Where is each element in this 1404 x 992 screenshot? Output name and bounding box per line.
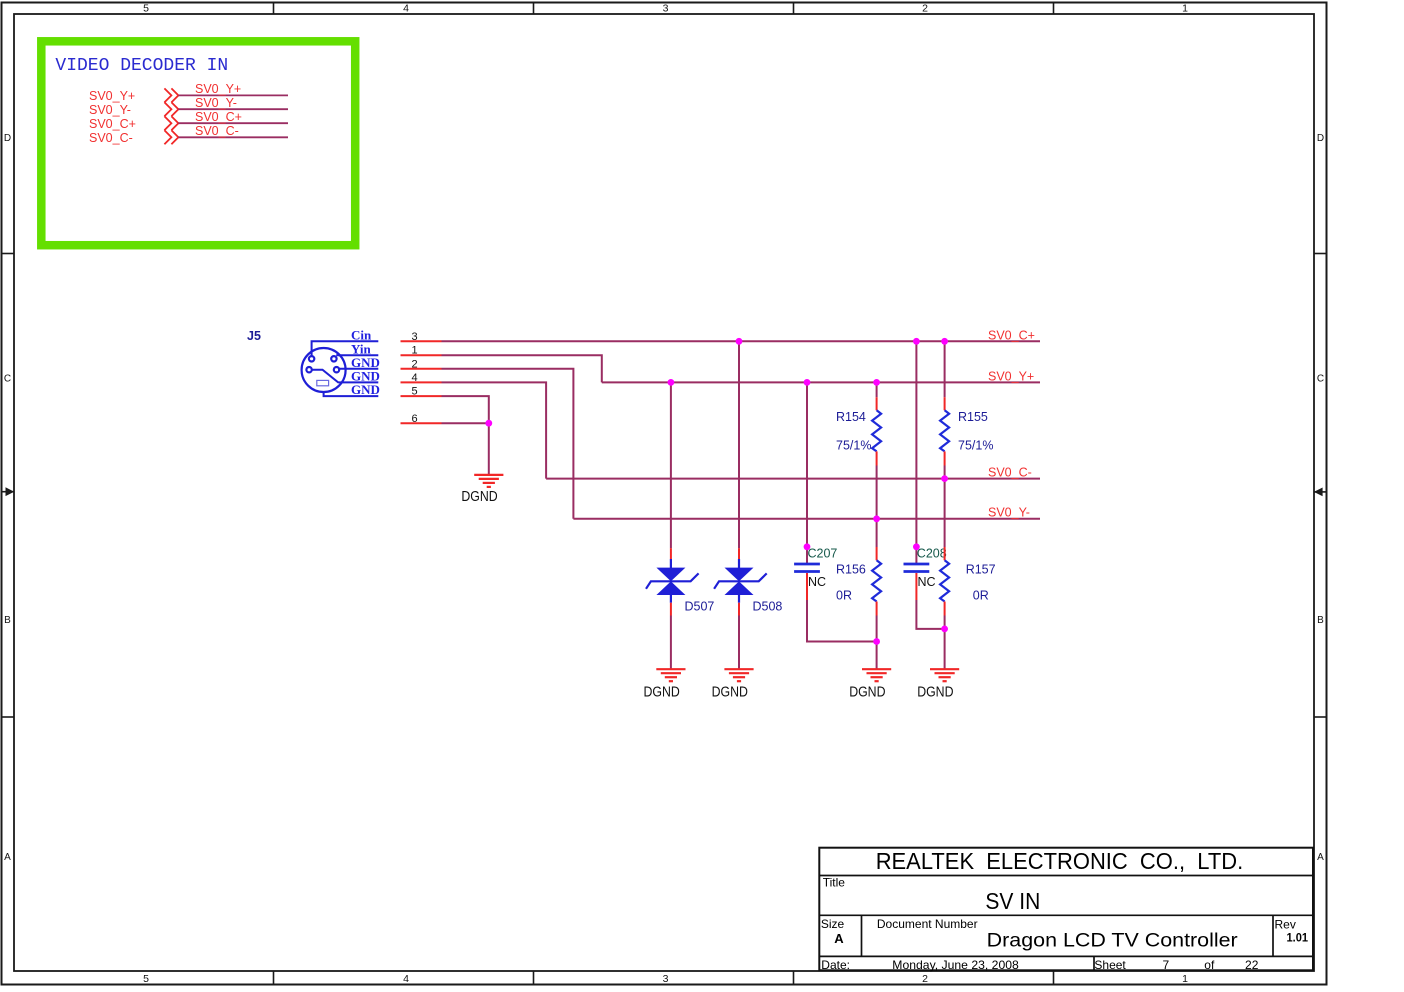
junction C208 / R157 bottom xyxy=(941,626,948,633)
wire SV0_Y+ (in box) xyxy=(178,94,288,96)
svg-text:A: A xyxy=(834,931,844,946)
svg-text:NC: NC xyxy=(808,575,826,589)
svg-text:REALTEK ELECTRONIC CO., LTD: REALTEK ELECTRONIC CO., LTD. xyxy=(876,848,1243,874)
svg-text:SV0_Y-: SV0_Y- xyxy=(89,103,131,117)
svg-text:3: 3 xyxy=(411,331,417,343)
svg-text:SV0_Y+: SV0_Y+ xyxy=(89,89,135,103)
pin Yin line xyxy=(336,354,378,356)
wire pin6 to junction xyxy=(442,422,489,424)
svg-text:R157: R157 xyxy=(966,563,996,577)
zone letters right xyxy=(1317,133,1324,863)
svg-text:SV0_Y+: SV0_Y+ xyxy=(195,82,241,96)
svg-text:SV0_Y-: SV0_Y- xyxy=(195,96,237,110)
wire R156 bottom to DGND xyxy=(876,616,878,670)
svg-text:Size: Size xyxy=(821,917,845,931)
svg-text:NC: NC xyxy=(918,575,936,589)
svg-text:D507: D507 xyxy=(685,600,715,614)
svg-text:B: B xyxy=(1317,615,1324,626)
ground DGND (D507) xyxy=(644,669,686,700)
svg-text:D: D xyxy=(1317,133,1324,144)
junction SV0_Y+ / R154 xyxy=(873,379,880,386)
svg-text:C207: C207 xyxy=(808,547,838,561)
resistor R156 xyxy=(836,547,881,616)
wire net SV0_Y- xyxy=(573,518,1040,520)
pin GND line (pin5) xyxy=(324,392,379,396)
svg-text:5: 5 xyxy=(143,973,149,985)
capacitor C207 xyxy=(794,547,837,600)
svg-text:SV0_Y-: SV0_Y- xyxy=(988,506,1030,520)
title block frame xyxy=(819,848,1313,971)
svg-text:3: 3 xyxy=(663,973,669,985)
wire D508 to DGND xyxy=(738,616,740,670)
off-page connector chevron SV0_C- xyxy=(164,130,178,144)
wire pin4 to C- xyxy=(442,382,547,478)
svg-text:Sheet: Sheet xyxy=(1094,958,1126,972)
junction SV0_C+ / D508 xyxy=(736,338,743,345)
junction SV0_Y+ / C207 xyxy=(804,379,811,386)
wire net SV0_C- xyxy=(546,478,1040,480)
svg-text:A: A xyxy=(4,852,11,863)
junction C207 / R156 bottom xyxy=(873,638,880,645)
off-page connector chevron SV0_Y- xyxy=(164,102,178,116)
svg-text:C: C xyxy=(1317,374,1324,385)
svg-text:VIDEO DECODER IN: VIDEO DECODER IN xyxy=(55,56,228,76)
svg-text:3: 3 xyxy=(663,3,669,15)
svg-text:DGND: DGND xyxy=(917,683,953,700)
svg-text:DGND: DGND xyxy=(644,683,680,700)
zone ticks right xyxy=(1314,254,1327,718)
svg-text:C: C xyxy=(4,374,11,385)
ground DGND (D508) xyxy=(712,669,754,700)
svg-text:D: D xyxy=(4,133,11,144)
svg-text:DGND: DGND xyxy=(461,488,497,505)
svg-text:7: 7 xyxy=(1162,958,1169,972)
svg-text:SV0_C+: SV0_C+ xyxy=(988,328,1035,342)
svg-text:SV0_C-: SV0_C- xyxy=(988,466,1032,480)
svg-text:SV IN: SV IN xyxy=(985,888,1040,914)
wire D508 branch xyxy=(738,341,740,548)
svg-text:GND: GND xyxy=(351,382,380,397)
ground DGND (J5 shield) xyxy=(461,475,503,505)
junction C208 top pin xyxy=(913,543,920,550)
zone numbers top xyxy=(143,3,1188,15)
svg-text:6: 6 xyxy=(411,413,417,425)
pin stub 2 xyxy=(401,368,442,370)
svg-text:5: 5 xyxy=(143,3,149,15)
off-page connector chevron SV0_C+ xyxy=(164,116,178,130)
wire C207 branch xyxy=(806,382,808,564)
svg-text:SV0_C-: SV0_C- xyxy=(195,124,239,138)
svg-text:1.01: 1.01 xyxy=(1287,930,1309,944)
connector J5 keying notch xyxy=(317,380,329,385)
wire D507 branch xyxy=(670,382,672,548)
svg-text:1: 1 xyxy=(1182,973,1188,985)
wire pin2 to Y- xyxy=(442,369,574,519)
zone ticks left xyxy=(2,254,15,718)
svg-text:of: of xyxy=(1204,958,1215,972)
resistor R157 xyxy=(940,547,996,616)
pin Cin line xyxy=(312,341,379,356)
left mid-page arrow xyxy=(2,487,15,496)
pin GND line (pin2) xyxy=(339,368,378,370)
svg-text:Dragon LCD TV Controller: Dragon LCD TV Controller xyxy=(987,930,1239,951)
svg-text:5: 5 xyxy=(411,386,417,398)
svg-text:22: 22 xyxy=(1245,958,1259,972)
svg-text:4: 4 xyxy=(411,372,417,384)
wire D507 to DGND xyxy=(670,616,672,670)
zone letters left xyxy=(4,133,11,863)
wire net SV0_Y+ xyxy=(602,381,1040,383)
capacitor C208 xyxy=(904,547,947,600)
svg-text:4: 4 xyxy=(403,973,409,985)
svg-text:D508: D508 xyxy=(753,600,783,614)
svg-text:1: 1 xyxy=(411,345,417,357)
wire R155 to C- xyxy=(944,466,946,479)
pin stub 1 xyxy=(401,354,442,356)
wire C208 bottom hook xyxy=(916,600,944,629)
svg-text:Monday, June 23, 2008: Monday, June 23, 2008 xyxy=(892,958,1019,972)
resistor R155 xyxy=(940,397,993,465)
svg-text:J5: J5 xyxy=(247,329,261,343)
wire net SV0_C+ xyxy=(442,340,1041,342)
junction SV0_Y- / R154-R156 xyxy=(873,515,880,522)
wire SV0_C+ (in box) xyxy=(178,122,288,124)
wire C207 bottom hook xyxy=(807,600,877,642)
ground DGND (R156) xyxy=(849,669,891,700)
svg-text:Document Number: Document Number xyxy=(877,917,978,931)
junction pin5-pin6 ground xyxy=(485,420,492,427)
pin GND line (pin4) xyxy=(312,370,379,383)
svg-text:SV0_C-: SV0_C- xyxy=(89,131,133,145)
svg-text:Title: Title xyxy=(823,876,846,890)
junction SV0_C+ / C208 xyxy=(913,338,920,345)
junction SV0_Y+ / D507 xyxy=(668,379,675,386)
svg-text:2: 2 xyxy=(922,3,928,15)
right mid-page arrow xyxy=(1314,488,1327,497)
junction SV0_C+ / R155 xyxy=(941,338,948,345)
wire R156 top xyxy=(876,519,878,547)
svg-text:R156: R156 xyxy=(836,563,866,577)
zone ticks bottom xyxy=(274,971,1054,985)
wire R154 to Y- xyxy=(876,466,878,519)
svg-text:Rev: Rev xyxy=(1275,917,1296,931)
wire R157 top xyxy=(944,479,946,547)
svg-text:DGND: DGND xyxy=(849,683,885,700)
zone ticks top xyxy=(274,2,1054,14)
wire SV0_Y- (in box) xyxy=(178,108,288,110)
off-page connector chevron SV0_Y+ xyxy=(164,88,178,102)
svg-text:C208: C208 xyxy=(917,547,947,561)
wire pin5 to junction xyxy=(442,396,489,423)
svg-text:Date:: Date: xyxy=(821,958,850,972)
ground DGND (R157) xyxy=(917,669,959,700)
diode D508 xyxy=(714,548,782,615)
wire R155 branch xyxy=(944,341,946,397)
diode D507 xyxy=(646,548,714,615)
svg-text:2: 2 xyxy=(922,973,928,985)
svg-text:0R: 0R xyxy=(836,588,852,602)
connector J5 body (mini-DIN circle) xyxy=(302,348,346,392)
svg-text:SV0_C+: SV0_C+ xyxy=(89,117,136,131)
svg-text:DGND: DGND xyxy=(712,683,748,700)
svg-text:4: 4 xyxy=(403,3,409,15)
pin stub 3 xyxy=(401,340,442,342)
svg-text:SV0_C+: SV0_C+ xyxy=(195,110,242,124)
pin stub 4 xyxy=(401,381,442,383)
junction SV0_C- / R155-R157 xyxy=(941,475,948,482)
svg-text:R154: R154 xyxy=(836,410,866,424)
resistor R154 xyxy=(836,397,881,465)
svg-text:1: 1 xyxy=(1182,3,1188,15)
wire C208 branch xyxy=(915,341,917,564)
svg-text:0R: 0R xyxy=(973,588,989,602)
pin stub 5 xyxy=(401,395,442,397)
wire Yin to Y+ xyxy=(442,355,602,382)
green annotation box xyxy=(41,41,355,245)
svg-text:A: A xyxy=(1317,852,1324,863)
svg-text:75/1%: 75/1% xyxy=(836,439,871,453)
svg-text:SV0_Y+: SV0_Y+ xyxy=(988,369,1034,383)
wire R157 bottom to DGND xyxy=(944,616,946,670)
zone numbers bottom xyxy=(143,973,1188,985)
svg-text:2: 2 xyxy=(411,358,417,370)
svg-text:R155: R155 xyxy=(958,410,988,424)
wire R154 branch xyxy=(876,382,878,397)
svg-text:75/1%: 75/1% xyxy=(958,439,993,453)
pin stub 6 xyxy=(401,422,442,424)
wire SV0_C- (in box) xyxy=(178,136,288,138)
wire junction to DGND xyxy=(488,423,490,475)
svg-text:B: B xyxy=(4,615,11,626)
junction C207 top pin xyxy=(804,543,811,550)
